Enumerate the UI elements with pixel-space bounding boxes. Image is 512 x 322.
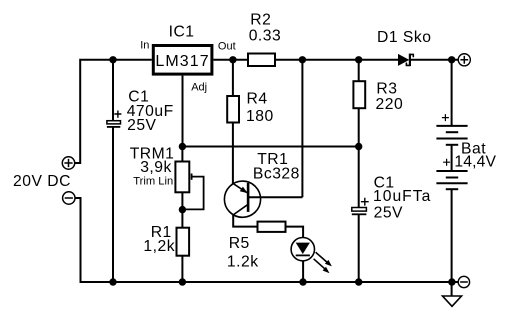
svg-text:Bc328: Bc328 xyxy=(253,166,300,183)
svg-text:D1 Sko: D1 Sko xyxy=(377,29,431,46)
svg-text:25V: 25V xyxy=(374,205,403,222)
svg-text:R4: R4 xyxy=(247,91,268,108)
svg-text:3,9k: 3,9k xyxy=(140,159,172,176)
svg-text:180: 180 xyxy=(246,108,274,125)
svg-text:LM317: LM317 xyxy=(155,53,209,70)
svg-text:10uFTa: 10uFTa xyxy=(373,188,431,205)
svg-text:Adj: Adj xyxy=(191,81,207,93)
svg-text:1.2k: 1.2k xyxy=(227,253,259,270)
svg-text:0.33: 0.33 xyxy=(249,27,282,44)
svg-text:Out: Out xyxy=(218,40,236,52)
svg-text:25V: 25V xyxy=(127,117,156,134)
svg-text:Trim Lin: Trim Lin xyxy=(133,175,173,187)
svg-text:R2: R2 xyxy=(250,12,271,29)
svg-text:In: In xyxy=(140,40,149,52)
svg-text:R5: R5 xyxy=(229,235,250,252)
svg-text:220: 220 xyxy=(376,96,404,113)
svg-text:R3: R3 xyxy=(376,80,397,97)
svg-text:20V DC: 20V DC xyxy=(13,173,71,190)
svg-text:IC1: IC1 xyxy=(169,24,195,41)
svg-text:14,4V: 14,4V xyxy=(454,153,496,170)
svg-text:1,2k: 1,2k xyxy=(143,238,175,255)
